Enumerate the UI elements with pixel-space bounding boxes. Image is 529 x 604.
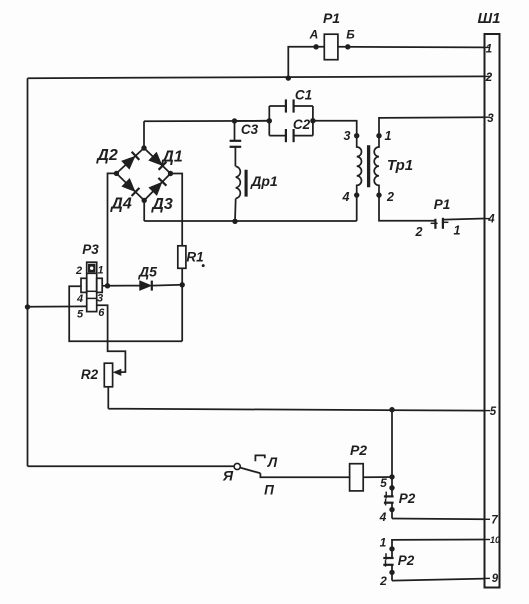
C-block right bar [312,106,314,136]
wire Р3 pin 4 loop (left-down-right) [69,286,182,341]
node Б [345,44,350,49]
C-block bottom branch left [269,135,285,137]
svg-text:Др1: Др1 [250,173,278,189]
Ш1 pin 3 tick [485,116,491,118]
C-block bottom branch right [294,135,313,137]
switch Я lever [240,468,260,474]
svg-text:Р1: Р1 [434,197,451,212]
capacitor C2 plates [285,129,287,142]
svg-text:3: 3 [97,293,103,305]
wire Д5 cathode lead [152,284,182,287]
wire Р2 coil to junction [363,476,392,478]
Тр1 secondary winding (pins 1-2) [374,136,379,195]
svg-text:Д4: Д4 [109,196,132,213]
node Р2 contact pin 1 [389,546,394,551]
bridge edge B-R [144,174,170,201]
svg-text:Р1: Р1 [323,10,340,26]
Р2 contact b upper plate [383,557,393,559]
wire bridge bottom to bus [143,200,145,221]
relay Р3 divider 2 [87,290,97,292]
svg-text:6: 6 [98,307,105,319]
node C3 top junction [232,118,237,123]
node Д5 cathode junction [180,282,185,287]
svg-text:2: 2 [386,190,394,204]
Ш1 pin 2 tick [485,75,491,77]
wire bus to Ш1 pin 5 [108,409,484,411]
Р2 contact b lower plate [383,564,393,566]
Р2 contact b lower tick [385,560,387,567]
wire bridge right node to R1 [171,174,183,246]
diode Д4 [122,179,135,192]
svg-text:4: 4 [342,190,350,204]
node C-block right junction [310,118,315,123]
C-block top branch left [269,105,285,107]
diode Д2 [122,157,135,169]
diode Д3 [149,183,162,196]
svg-text:5: 5 [380,476,387,490]
Тр1 core bar [367,146,370,188]
Р2 contact lower plate [384,502,394,504]
svg-text:3: 3 [344,129,351,143]
wire R2 bottom [107,387,109,409]
capacitor C3 plates [230,140,242,142]
node bridge top [141,145,146,150]
node Р2 contact pin 2 [389,570,394,575]
node Тр1 pin 3 [354,133,359,138]
node Др1 bus junction [232,219,237,224]
Ш1 pin 1 tick [485,46,491,48]
wire Р3 pin 3 to junction [102,285,107,287]
relay contact Р1 left tick [431,222,438,224]
diode Д5 triangle [140,281,152,290]
node Тр1 pin 2 [376,192,381,197]
relay Р3 armature mark [88,264,95,272]
relay Р3 left tab [81,278,87,292]
node bridge right [168,171,173,176]
node Р2 coil junction [389,474,394,479]
relay contact Р1 right tick [442,221,449,223]
svg-text:Р2: Р2 [350,442,367,458]
Ш1 pin 9 tick [485,577,491,579]
wire Тр1 pin 1 to Ш1 pin 3 [379,117,485,136]
svg-text:Д3: Д3 [150,196,173,213]
wire bus y=221 (bridge to Тр1 pin4) [144,220,357,222]
svg-text:Д2: Д2 [95,147,118,164]
wire R1 bottom / box right edge [181,268,183,341]
inductor Др1 winding [236,166,241,198]
svg-text:2: 2 [485,72,493,84]
node Р2 contact pin 4 [389,507,394,512]
switch Я pivot [234,463,240,469]
svg-text:R1: R1 [186,250,203,265]
svg-text:Б: Б [346,28,355,42]
wire Р1 contact to Ш1 pin 4 [444,219,485,220]
svg-text:1: 1 [385,129,392,143]
node C-block left junction [267,118,272,123]
svg-text:2: 2 [75,265,82,277]
Ш1 pin 10 tick [485,539,491,541]
wire contact to Ш1 pin 7 [392,518,485,521]
wire contact b to Ш1 pin 9 [392,579,485,581]
wire top bus (left frame top to Ш1 pin 2) [28,76,485,78]
svg-text:10: 10 [490,535,500,545]
svg-text:1: 1 [97,265,103,277]
C-block left bar [268,106,270,136]
wire Р3 pin 5 to left bus [28,305,87,307]
svg-text:R2: R2 [81,367,99,382]
diode Д1 [149,153,162,166]
wire contact upper lead [391,477,393,496]
wire bus down to Р2 coil node [391,410,393,477]
node Тр1 pin 4 [354,192,359,197]
svg-text:П: П [264,483,274,498]
relay Р3 divider 1 [87,272,97,274]
relay coil Р2 [350,464,364,491]
wire C3 to Др1 [234,147,236,166]
wire Тр1 pin 4 to bus [356,195,358,221]
svg-text:3: 3 [487,113,494,125]
svg-text:7: 7 [491,515,498,527]
bridge edge L-B [116,173,144,200]
Р2 contact b upper tick [385,553,387,560]
svg-text:5: 5 [77,309,84,321]
bridge edge T-R [144,148,171,174]
wire C3 top lead [234,121,236,141]
Ш1 pin 5 tick [485,410,491,412]
Тр1 primary winding (pins 3-4) [357,136,362,195]
inductor Др1 core bar [245,170,248,196]
svg-text:2: 2 [379,574,387,588]
node left bus junction [25,304,30,309]
node bus/Р2 junction [389,407,394,412]
wire Р3 pin 6 to R2 wiper [97,305,126,372]
svg-text:Тр1: Тр1 [387,157,413,174]
wire P1 branch riser [288,47,324,78]
resistor R1 [178,246,186,268]
svg-text:Л: Л [267,455,278,470]
wire horizontal bus y=121 to C-block [144,120,269,122]
svg-text:Я: Я [222,468,234,484]
svg-text:Д1: Д1 [160,149,183,166]
svg-text:Р2: Р2 [398,553,415,568]
wire left bus to switch [28,465,235,467]
R1 label comma [202,264,205,267]
wire Ш1 pin 10 to contact [392,540,485,558]
node bridge left [114,171,119,176]
svg-text:1: 1 [454,224,461,238]
diode Д5 cathode bar [151,281,153,291]
svg-text:2: 2 [415,225,423,239]
wire left bus vertical [27,78,29,466]
wire into C-block [235,120,270,122]
resistor R2 [104,363,112,387]
wire bridge top riser [143,121,145,148]
node A [313,44,318,49]
node Р2 contact pin 5 [389,485,394,490]
relay coil Р1 [324,34,338,60]
relay Р3 right tab [97,278,103,292]
connector strip Ш1 body [485,34,500,588]
wire Др1 to bus [234,199,237,222]
wire Д5 anode lead [108,285,141,287]
relay contact Р1 right plate [442,218,444,229]
svg-text:4: 4 [76,293,83,305]
wire bridge left node down to Д5 junction [108,173,117,285]
svg-text:4: 4 [487,214,495,226]
wire contact b lower lead [391,565,393,581]
svg-text:Ш1: Ш1 [477,10,500,27]
svg-text:9: 9 [492,573,499,585]
node Д5 anode junction [105,283,110,288]
C-block top branch right [294,105,313,107]
wire contact lower lead [391,503,393,519]
svg-text:1: 1 [486,44,492,56]
Ш1 pin 4 tick [485,218,491,220]
switch throw Л mark [255,455,264,461]
svg-text:Р3: Р3 [82,242,99,257]
wire Б to Ш1 pin 1 [338,46,485,49]
wire C-block to Тр1 pin 3 [313,121,357,136]
Р2 contact upper tick [385,492,387,499]
svg-text:С2: С2 [293,117,311,132]
Р2 contact lower tick [385,499,387,506]
capacitor C1 plates [285,99,287,112]
svg-text:Р2: Р2 [399,491,416,506]
wire switch to Р2 coil [260,473,349,477]
svg-text:1: 1 [380,536,387,550]
svg-text:А: А [309,28,319,42]
Ш1 pin 7 tick [485,518,491,520]
svg-text:С1: С1 [295,88,312,103]
node bridge bottom [142,198,147,203]
svg-text:4: 4 [379,510,387,524]
Р2 contact upper plate [384,495,394,497]
R2 wiper arrowhead [113,369,122,376]
bridge edge L-T [116,148,144,173]
node Тр1 pin 1 [376,133,381,138]
relay Р3 body [87,262,97,311]
svg-text:Д5: Д5 [138,264,157,280]
svg-text:С3: С3 [241,122,259,137]
relay contact Р1 left plate [434,219,436,229]
node junction top bus / P1 branch [286,75,291,80]
svg-text:5: 5 [490,406,497,418]
relay Р3 divider 3 [87,297,97,299]
wire Тр1 pin 2 down-right [379,195,435,221]
